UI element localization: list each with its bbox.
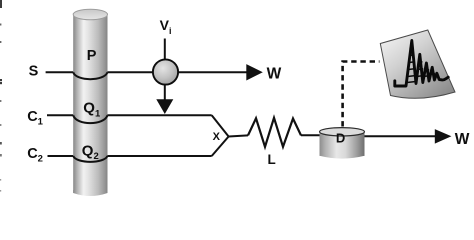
modulator ball Vi [153, 59, 178, 84]
svg-text:i: i [169, 26, 172, 36]
label Q1 [83, 100, 101, 120]
spectrum trace [395, 41, 448, 87]
svg-text:X: X [213, 131, 221, 143]
svg-text:W: W [267, 66, 282, 83]
wire coil to D [301, 134, 320, 136]
svg-text:2: 2 [94, 151, 99, 162]
label Vi [160, 17, 172, 36]
detector D (small can) [320, 128, 365, 159]
wire S (input beam) [46, 72, 248, 79]
svg-text:2: 2 [38, 154, 43, 165]
display sheet (spectrum card) [380, 30, 455, 98]
svg-text:Q: Q [82, 142, 94, 159]
label C1 [27, 109, 43, 127]
arrow Vi (down onto C1 line) [156, 85, 173, 115]
svg-text:Q: Q [83, 100, 95, 117]
wire Vi stem [164, 39, 166, 63]
arrowhead W (top) [246, 64, 262, 80]
cylinder P (vertical rod) [73, 9, 107, 196]
label Q2 [82, 142, 99, 162]
wire X to coil [229, 135, 248, 136]
label C2 [27, 146, 43, 164]
svg-text:P: P [87, 48, 97, 64]
edge artifact marks [0, 0, 2, 192]
svg-text:1: 1 [95, 109, 101, 120]
svg-text:L: L [268, 152, 276, 167]
arrowhead W (right) [435, 129, 452, 144]
wire D to W (right) [365, 135, 437, 137]
coil L (zigzag) [248, 118, 301, 147]
dashed link D to display [343, 62, 380, 127]
wire C1 [47, 115, 229, 136]
svg-text:1: 1 [38, 116, 44, 127]
svg-text:D: D [336, 131, 345, 146]
svg-text:W: W [455, 131, 470, 148]
spectrum peak ticks [406, 48, 435, 83]
svg-text:S: S [29, 64, 39, 80]
wire C2 [48, 137, 229, 162]
